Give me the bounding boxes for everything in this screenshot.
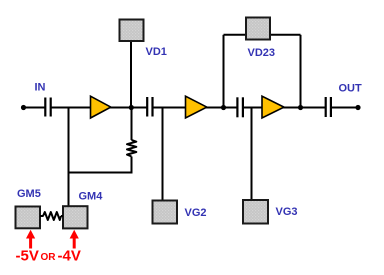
svg-text:VG2: VG2: [185, 207, 207, 219]
wire: stub down to VG2 box: [162, 107, 164, 201]
node bridge-left junction dot: [221, 105, 226, 110]
arrow: -4V supply into GM4: [70, 230, 79, 249]
box VG2 (gate bias terminal): [153, 201, 178, 224]
svg-text:GM5: GM5: [17, 188, 41, 200]
svg-text:IN: IN: [35, 82, 46, 94]
box VG3 (gate bias terminal): [243, 200, 268, 224]
capacitor C4 (output DC block): [326, 97, 331, 117]
wire: R1 bottom to feedback corner and left to GM4 stub: [69, 157, 132, 173]
wire: A3 output to C4: [283, 107, 325, 109]
wire: A2 output to C3: [206, 107, 237, 109]
wire: stub down to VG3 box: [251, 107, 253, 201]
node A1 output junction dot: [129, 105, 134, 110]
capacitor C2 (interstage): [147, 97, 152, 117]
node IN terminal dot: [21, 105, 26, 110]
wire: C3 to amplifier A3 input: [244, 107, 263, 109]
wire: R2 lead to GM4: [61, 215, 63, 217]
wire: gate bias stub down to GM4 box: [68, 107, 70, 207]
capacitor C1 (input DC block): [45, 98, 50, 117]
box GM4 (bias terminal): [63, 206, 88, 228]
wire: junction up to VD1 box: [130, 40, 132, 107]
resistor R1 (feedback, vertical zigzag): [127, 140, 136, 157]
wire: A1 output to C2: [110, 107, 147, 109]
wire: input dot to C1: [24, 107, 45, 109]
svg-text:GM4: GM4: [79, 191, 104, 203]
arrow: -5V supply into GM5: [26, 230, 35, 249]
svg-text:VD1: VD1: [146, 46, 167, 58]
wire: C2 to amplifier A2 input: [153, 107, 186, 109]
svg-text:VG3: VG3: [276, 206, 298, 218]
svg-text:OUT: OUT: [339, 83, 363, 95]
wire: C1 to amplifier A1 input: [52, 107, 92, 109]
box VD23 (shared drain supply terminal): [246, 18, 270, 40]
svg-text:-4V: -4V: [58, 248, 81, 265]
wire: bridge left vertical up: [223, 35, 225, 108]
node bridge-right junction dot: [298, 105, 303, 110]
wire: GM5 to R2 lead: [40, 215, 44, 217]
box GM5 (bias terminal): [16, 207, 41, 229]
wire: bridge horizontal through VD23: [224, 34, 301, 36]
op-amp A2 (second stage amplifier): [186, 96, 207, 118]
node OUT terminal dot: [355, 105, 360, 110]
svg-text:OR: OR: [41, 252, 57, 263]
op-amp A3 (third stage amplifier): [262, 96, 284, 118]
op-amp A1 (first stage amplifier): [91, 96, 111, 118]
svg-text:VD23: VD23: [248, 47, 276, 59]
resistor R2 (between GM5 and GM4, horizontal zigzag): [43, 212, 61, 220]
wire: C4 to output dot: [332, 107, 359, 109]
wire: bridge right vertical down: [300, 35, 302, 108]
wire: junction down to resistor R1: [131, 107, 133, 140]
svg-text:-5V: -5V: [16, 248, 39, 265]
box VD1 (drain supply terminal): [120, 20, 144, 42]
capacitor C3 (interstage): [237, 97, 243, 117]
